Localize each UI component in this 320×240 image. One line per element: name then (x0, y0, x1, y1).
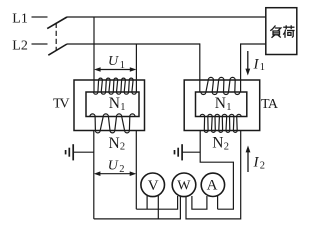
wire L1 to load (67, 16, 266, 18)
voltage arrow U2 (double headed) (94, 171, 137, 176)
wire L2 to TA primary (67, 43, 200, 45)
wire L1 down to TV primary left (93, 17, 95, 92)
label TA N1 (215, 95, 232, 113)
switch blade L2 (48, 44, 67, 55)
label 负 (load char 1) (270, 26, 281, 38)
current arrow I2 (246, 146, 251, 173)
svg-text:N: N (212, 135, 223, 152)
transformer TA inner box (196, 92, 247, 117)
ground TA secondary (175, 144, 183, 160)
svg-text:V: V (148, 178, 159, 194)
svg-text:U: U (108, 54, 119, 69)
svg-text:1: 1 (120, 102, 125, 113)
wire TV secondary right down (135, 131, 137, 210)
svg-text:2: 2 (260, 160, 265, 171)
label TV (53, 96, 70, 111)
wire L1 lead (32, 16, 48, 18)
wire TA ground tap (182, 151, 200, 153)
transformer TV outer core box (74, 80, 145, 131)
svg-text:N: N (109, 135, 120, 152)
svg-text:2: 2 (120, 142, 125, 153)
meter W (wattmeter) (172, 173, 196, 197)
svg-text:U: U (108, 158, 119, 173)
current arrow I1 (245, 51, 250, 76)
label TV N2 (109, 135, 126, 153)
voltage arrow U1 (double headed) (94, 67, 136, 72)
svg-text:I: I (253, 56, 260, 72)
wire TV secondary left down (93, 131, 95, 219)
wire TV ground tap (73, 151, 94, 153)
svg-text:2: 2 (224, 141, 229, 152)
switch blade L1 (47, 17, 67, 29)
bus TV secondary right to meters (136, 196, 177, 209)
svg-text:L2: L2 (12, 38, 28, 53)
bus TV secondary left to wattmeter (bottom) (94, 196, 181, 219)
svg-text:W: W (177, 178, 191, 193)
ground TV secondary (66, 144, 74, 160)
label I2 (253, 154, 265, 171)
transformer TV inner box (86, 92, 139, 117)
load box 负荷 (266, 8, 297, 55)
svg-text:TA: TA (261, 97, 279, 112)
wire L2 lead (32, 43, 48, 45)
svg-text:1: 1 (260, 62, 265, 73)
TA primary winding N1 (201, 77, 240, 94)
TV secondary winding N2 (90, 114, 135, 133)
svg-text:1: 1 (120, 60, 125, 71)
meter A (ammeter) (201, 173, 224, 196)
label U2 (108, 158, 125, 175)
meter V (voltmeter) (141, 173, 165, 197)
svg-text:L1: L1 (12, 11, 28, 26)
wire voltmeter left lead (146, 196, 148, 209)
label TA (261, 97, 279, 112)
wire L2 corner down to TA primary left (199, 43, 201, 91)
TA secondary winding N2 (200, 114, 241, 132)
wire wattmeter to ammeter link (192, 196, 207, 209)
transformer TA outer core box (184, 80, 260, 131)
svg-text:N: N (215, 95, 226, 112)
label 荷 (load char 2) (283, 25, 294, 38)
switch gang link (dashed) (55, 23, 57, 51)
svg-text:2: 2 (119, 164, 124, 175)
label TV N1 (109, 95, 126, 113)
wire L2 down to TV primary right (135, 44, 137, 92)
svg-text:1: 1 (226, 102, 231, 113)
node L1 label (12, 11, 28, 26)
svg-text:I: I (253, 154, 260, 170)
label TA N2 (212, 135, 229, 153)
label I1 (253, 56, 265, 73)
label U1 (108, 54, 125, 71)
wire TA secondary right down to bottom bus (186, 131, 241, 219)
svg-text:N: N (109, 95, 120, 112)
TV primary winding N1 (94, 78, 137, 94)
svg-text:TV: TV (53, 96, 70, 111)
node L2 label (12, 38, 28, 53)
wire ammeter right lead to TA return (217, 196, 219, 209)
wire voltmeter right lead (157, 196, 159, 219)
wire TA secondary left down (grounded side) (200, 131, 233, 210)
svg-text:A: A (207, 177, 218, 193)
wire TA primary right up and to load (241, 44, 266, 92)
